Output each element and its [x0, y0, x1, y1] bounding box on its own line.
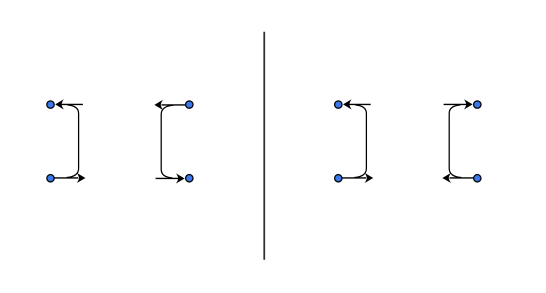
- connector curve: [449, 105, 461, 178]
- node top-left: [335, 101, 342, 108]
- arrowhead into top node (left): [55, 99, 64, 109]
- motif 2: top-to-bottom arrow pair, nodes right, bulge left: [154, 100, 193, 184]
- node top-right: [186, 101, 193, 108]
- wire bottom shaft: [450, 177, 475, 179]
- motif 4: bottom-to-top arrow pair, nodes right, bulge left: [442, 99, 481, 183]
- node bottom-right: [186, 175, 193, 182]
- node top-right: [474, 101, 481, 108]
- node bottom-left: [47, 175, 54, 182]
- wire top shaft: [156, 177, 181, 179]
- wire bottom shaft: [54, 177, 79, 179]
- wire top shaft: [444, 103, 469, 105]
- arrowhead into top node (right after mirror): [464, 99, 473, 109]
- node bottom-left: [335, 175, 342, 182]
- arrowhead into bottom node (right after rotation): [176, 173, 185, 183]
- arrowhead departing top node (left after rotation): [154, 100, 163, 110]
- arrowhead departing bottom node (right): [77, 173, 86, 183]
- node bottom-right: [474, 175, 481, 182]
- wire top shaft: [347, 103, 371, 105]
- motif 3: bottom-to-top arrow pair, nodes left, bulge right: [335, 99, 374, 183]
- arrowhead departing bottom node (left after mirror): [442, 173, 451, 183]
- arrowhead departing bottom node (right): [365, 173, 374, 183]
- motif 1: bottom-to-top arrow pair, nodes left, bulge right: [47, 99, 86, 183]
- connector curve: [161, 105, 173, 178]
- wire top shaft: [59, 103, 83, 105]
- wire bottom shaft: [342, 177, 367, 179]
- wire bottom shaft: [162, 104, 187, 106]
- arrowhead into top node (left): [343, 99, 352, 109]
- node top-left: [47, 101, 54, 108]
- connector curve: [67, 105, 79, 178]
- divider: [263, 32, 265, 260]
- connector curve: [354, 105, 366, 178]
